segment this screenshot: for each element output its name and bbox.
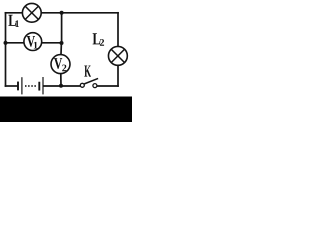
node junction J3 middle V1/V2 tap	[60, 41, 64, 45]
node junction J4 bottom V2 tap	[59, 84, 63, 88]
label V1 (inside voltmeter V1)	[27, 36, 38, 48]
battery B1	[18, 78, 43, 94]
wire: V1 branch right lead	[42, 42, 61, 44]
wire: battery to junction J4	[44, 85, 61, 87]
wire: top rail right segment	[42, 12, 118, 14]
wire: middle branch to V2	[60, 43, 62, 54]
wire: bottom rail left segment	[6, 85, 18, 87]
label K (switch)	[84, 65, 91, 76]
voltmeter V1	[24, 33, 42, 51]
wire: V2 bottom lead	[60, 74, 62, 86]
wire: V1 branch left lead	[6, 42, 24, 44]
switch terminal circle right	[93, 84, 97, 88]
label L1	[8, 15, 19, 27]
label V2 (inside voltmeter V2)	[54, 58, 66, 71]
wire: left rail	[5, 13, 7, 86]
battery plate short (cell 1 negative)	[17, 83, 19, 90]
voltmeter V2	[51, 55, 70, 74]
wire: middle branch upper	[61, 13, 63, 43]
black bottom bar	[0, 97, 132, 123]
lamp L2	[108, 46, 127, 65]
wire: right rail lower	[117, 66, 119, 86]
wire: right rail upper	[117, 13, 119, 46]
lamp L1	[22, 3, 41, 22]
wire: junction J4 to switch K	[61, 85, 80, 87]
wire: switch to bottom-right corner	[97, 85, 118, 87]
battery plate short (cell 2 negative)	[38, 83, 40, 90]
battery dots (omitted cells)	[25, 85, 36, 87]
switch terminal circle left	[80, 83, 84, 87]
node junction J2 left V1 tap	[4, 41, 8, 45]
battery plate long (cell 1 positive)	[21, 78, 23, 94]
label L2	[93, 33, 104, 45]
switch K	[80, 79, 97, 88]
switch lever	[85, 79, 97, 84]
wire: top rail left segment	[6, 12, 23, 14]
node junction J1 top middle	[60, 11, 64, 15]
battery plate long (cell 2 positive)	[42, 78, 44, 94]
